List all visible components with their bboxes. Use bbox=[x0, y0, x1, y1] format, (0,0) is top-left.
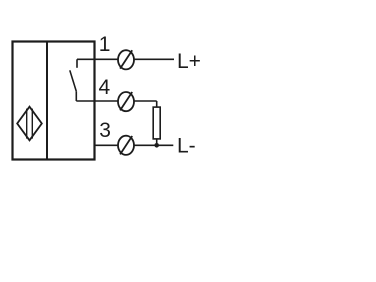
svg-text:L+: L+ bbox=[177, 50, 201, 73]
svg-text:4: 4 bbox=[99, 76, 111, 99]
svg-text:3: 3 bbox=[99, 119, 111, 142]
svg-text:L-: L- bbox=[177, 134, 196, 157]
svg-text:1: 1 bbox=[99, 33, 111, 56]
